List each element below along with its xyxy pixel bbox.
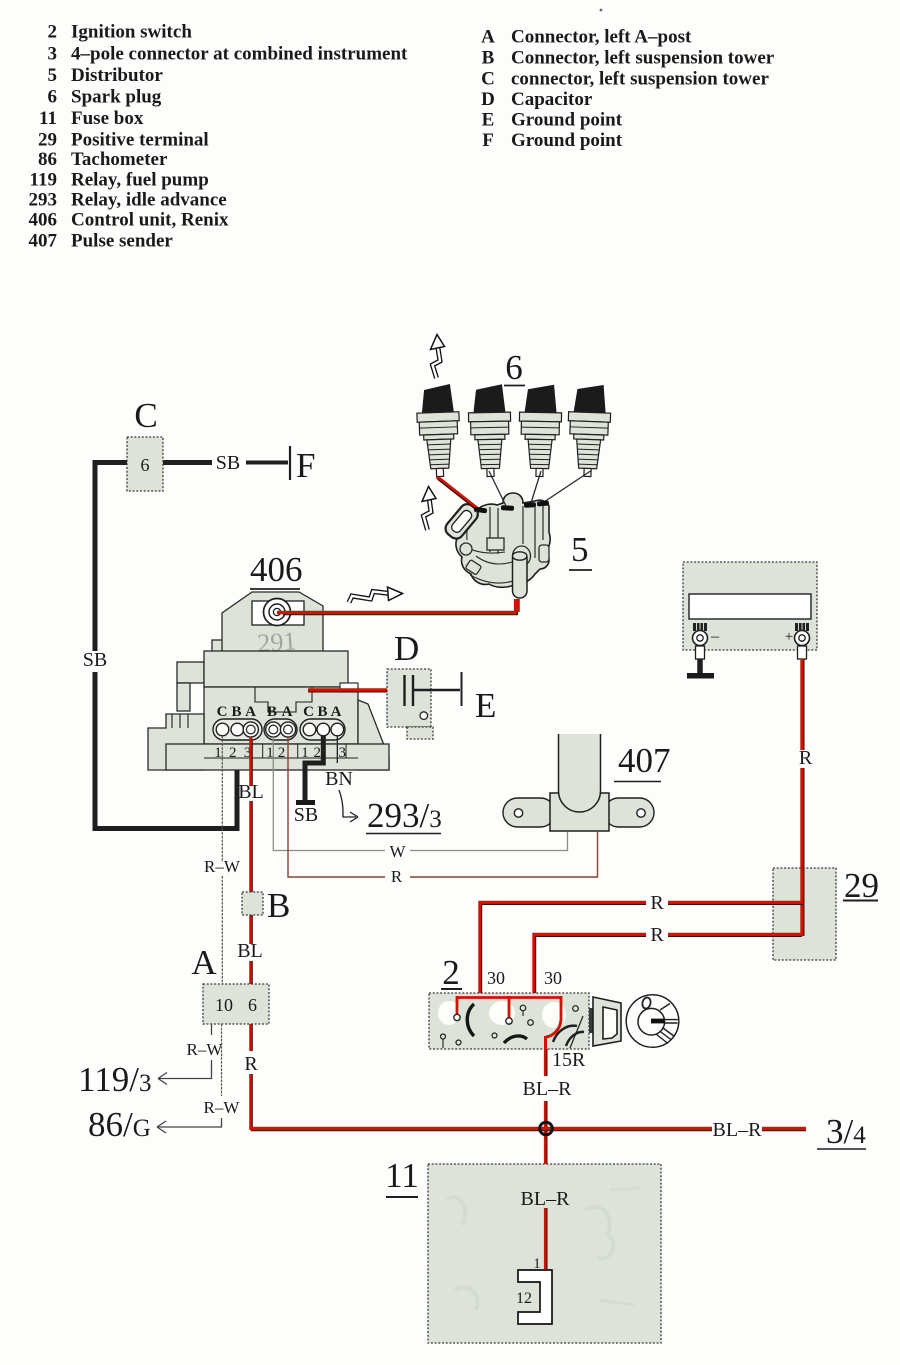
svg-text:SB: SB [216, 452, 240, 474]
svg-text:29: 29 [844, 866, 879, 905]
svg-text:291: 291 [256, 626, 297, 658]
wire R-W from pin C1 down to connector A [204, 736, 241, 984]
wire SB from control unit pin B1 down, left and up to connector C [83, 463, 237, 829]
junction node [540, 1122, 553, 1135]
ignition switch side trapezoid [589, 997, 621, 1046]
wire W from pin B2 to pulse sender 407 [273, 737, 567, 861]
positive terminal 29 [773, 866, 879, 960]
svg-text:B: B [482, 48, 495, 69]
ground F [290, 446, 315, 485]
svg-text:R: R [650, 924, 664, 946]
svg-text:Pulse sender: Pulse sender [71, 231, 173, 252]
connector C [127, 396, 163, 491]
svg-text:6: 6 [505, 348, 523, 387]
svg-text:E: E [475, 686, 496, 725]
svg-text:B: B [267, 704, 277, 720]
bottom rail BL-R (red) to 3/4 [251, 1119, 806, 1141]
svg-text:R–W: R–W [204, 1098, 241, 1117]
svg-text:407: 407 [618, 741, 671, 780]
svg-text:A: A [481, 27, 495, 48]
svg-text:C: C [303, 704, 314, 720]
svg-text:R: R [244, 1053, 258, 1075]
svg-text:2: 2 [442, 953, 460, 992]
svg-text:E: E [482, 110, 495, 131]
svg-text:11: 11 [39, 108, 57, 129]
svg-text:Relay, idle advance: Relay, idle advance [71, 190, 227, 211]
pin group 1 of 406 (C B A / 1 2 3) [213, 704, 262, 761]
svg-text:5: 5 [48, 65, 58, 86]
wire R (red) upper feed from 29 to ignition switch 30 [480, 868, 804, 993]
svg-text:–: – [710, 628, 720, 645]
svg-text:C: C [217, 704, 228, 720]
control unit 406 body [148, 592, 389, 770]
svg-text:C: C [481, 69, 495, 90]
reference 3/4 [817, 1112, 866, 1151]
svg-text:5: 5 [571, 530, 589, 569]
pin group 3 of 406 (C B A / 1 2 3) [300, 704, 346, 761]
capacitor D [387, 629, 433, 739]
svg-text:30: 30 [544, 968, 562, 988]
svg-text:BL: BL [238, 781, 264, 803]
svg-text:W: W [389, 842, 406, 861]
tachometer 86 [683, 562, 817, 659]
svg-text:A: A [191, 943, 217, 982]
wire 15R / BL-R (red) from ignition switch down [523, 1049, 586, 1194]
svg-text:SB: SB [294, 804, 318, 826]
wire SB from capacitor to ground E [414, 689, 460, 692]
connector B [242, 886, 290, 925]
spark plug 6 (no.2) [468, 384, 512, 477]
svg-text:BL–R: BL–R [523, 1078, 573, 1100]
wire R-W from connector A to 119/3 arrow [158, 1024, 223, 1085]
wire (red) ignition coil lead 406 to distributor [277, 599, 517, 615]
svg-text:Relay, fuel pump: Relay, fuel pump [71, 170, 209, 191]
ground wire from tachometer minus terminal [687, 659, 714, 679]
wire BL (red) from pin A1 to connector B [238, 737, 264, 944]
svg-text:BN: BN [325, 768, 353, 790]
svg-text:29: 29 [38, 130, 57, 151]
svg-text:Distributor: Distributor [71, 65, 163, 86]
svg-text:3: 3 [48, 44, 58, 65]
svg-text:Connector, left suspension tow: Connector, left suspension tower [511, 48, 775, 69]
svg-text:406: 406 [29, 210, 58, 231]
svg-text:406: 406 [250, 550, 303, 589]
wire R (red) from connector A down to bottom rail [244, 1024, 258, 1130]
wire R (red) from tachometer plus terminal to positive terminal 29 [799, 659, 813, 936]
zigzag arrow left of distributor [422, 487, 436, 531]
reference 293/3 [366, 796, 442, 835]
label 6 for spark plugs [504, 348, 525, 387]
svg-text:B: B [231, 704, 241, 720]
svg-text:11: 11 [385, 1156, 419, 1195]
svg-text:1: 1 [266, 745, 274, 761]
svg-text:BL–R: BL–R [713, 1119, 763, 1141]
svg-text:+: + [785, 629, 793, 645]
svg-text:2: 2 [229, 745, 237, 761]
wire R-W from connector A to 86/G arrow [157, 1024, 240, 1133]
wire SB stub from pin B3 to ground terminal [294, 736, 324, 826]
ignition lead plug2 to distributor [489, 471, 506, 506]
svg-text:BL: BL [237, 940, 263, 962]
svg-text:407: 407 [29, 231, 58, 252]
svg-text:D: D [481, 89, 495, 110]
ignition key cylinder face [626, 995, 679, 1048]
fuse box 11 [385, 1156, 661, 1343]
svg-text:Fuse box: Fuse box [71, 108, 144, 129]
svg-text:1: 1 [301, 745, 309, 761]
svg-text:2: 2 [48, 22, 58, 43]
ignition lead plug4 to distributor [544, 471, 591, 502]
svg-text:F: F [296, 446, 315, 485]
svg-text:R: R [391, 867, 403, 886]
pin group 2 of 406 (B A / 1 2) [264, 704, 297, 761]
svg-text:Control unit, Renix: Control unit, Renix [71, 210, 229, 231]
label 5 for distributor [569, 530, 592, 570]
fuse 12 [516, 1270, 552, 1324]
svg-text:R: R [799, 747, 813, 769]
connector A [191, 943, 269, 1024]
svg-text:12: 12 [516, 1290, 532, 1307]
svg-text:Positive terminal: Positive terminal [71, 130, 209, 151]
svg-text:Spark plug: Spark plug [71, 87, 162, 108]
zigzag arrow near coil wire [349, 592, 390, 603]
spark plug 6 (no.4) [566, 384, 611, 477]
svg-text:D: D [394, 629, 419, 668]
ignition switch 2 label [441, 953, 462, 992]
svg-text:connector, left suspension tow: connector, left suspension tower [511, 69, 769, 90]
wire BN from pin A3 with arrow to 293/3 [325, 736, 358, 822]
wire (red) from 406 to capacitor D [308, 690, 403, 692]
svg-text:6: 6 [48, 87, 58, 108]
svg-text:119: 119 [30, 170, 57, 191]
svg-text:6: 6 [248, 995, 257, 1015]
svg-text:Ignition switch: Ignition switch [71, 22, 192, 43]
distributor side bracket (ear) [443, 501, 481, 542]
svg-text:SB: SB [83, 649, 107, 671]
wire BL (red) from connector B to connector A [237, 940, 263, 984]
spark plug 6 (no.3) [518, 384, 562, 477]
svg-text:A: A [245, 704, 256, 720]
svg-text:B: B [267, 886, 290, 925]
svg-text:Capacitor: Capacitor [511, 89, 593, 110]
wire (red) distributor to coil rail [516, 599, 520, 612]
wire SB from connector C to ground F [163, 452, 288, 474]
distributor cap terminals [474, 500, 549, 513]
tick separators on number strip [263, 744, 346, 758]
svg-text:2: 2 [278, 745, 286, 761]
control unit 406 label [250, 550, 303, 589]
svg-text:B: B [317, 704, 327, 720]
svg-text:30: 30 [487, 968, 505, 988]
zigzag arrow upper left of plugs [431, 335, 445, 379]
ground E [462, 672, 497, 725]
svg-text:R: R [650, 892, 664, 914]
svg-text:Ground point: Ground point [511, 130, 623, 151]
svg-text:Connector, left A–post: Connector, left A–post [511, 27, 692, 48]
svg-text:86: 86 [38, 149, 57, 170]
wire BL-R (red) inside fuse box [521, 1188, 571, 1272]
coil terminal on 406 [264, 599, 291, 626]
distributor shaft stub [513, 546, 531, 598]
svg-text:A: A [331, 704, 342, 720]
svg-text:BL–R: BL–R [521, 1188, 571, 1210]
svg-text:C: C [134, 396, 157, 435]
svg-text:1: 1 [214, 745, 222, 761]
svg-text:15R: 15R [552, 1049, 586, 1071]
ignition lead plug3 to distributor [531, 471, 541, 503]
svg-text:Ground point: Ground point [511, 110, 623, 131]
svg-text:A: A [282, 704, 293, 720]
svg-text:F: F [482, 130, 494, 151]
svg-text:2: 2 [313, 745, 321, 761]
spark plug 6 (no.1) [416, 384, 461, 477]
stray speck [600, 9, 603, 12]
svg-text:293: 293 [29, 190, 58, 211]
ignition lead (red) plug1 to distributor [437, 477, 480, 512]
svg-text:R–W: R–W [187, 1040, 224, 1059]
svg-text:3: 3 [339, 745, 347, 761]
distributor 5 body [456, 493, 550, 587]
svg-text:Tachometer: Tachometer [71, 149, 168, 170]
svg-text:R–W: R–W [204, 857, 241, 876]
ignition switch 2 body [429, 993, 589, 1049]
legend right column [481, 27, 775, 152]
svg-text:10: 10 [215, 995, 233, 1015]
svg-text:4–pole connector at combined i: 4–pole connector at combined instrument [71, 44, 408, 65]
legend left column [29, 22, 409, 252]
pulse sender 407 [503, 734, 671, 831]
wire R (red) lower feed from 29 to ignition switch 30 [534, 924, 802, 993]
wire R from pin A2 to pulse sender 407 [288, 737, 598, 886]
svg-text:6: 6 [141, 455, 150, 475]
